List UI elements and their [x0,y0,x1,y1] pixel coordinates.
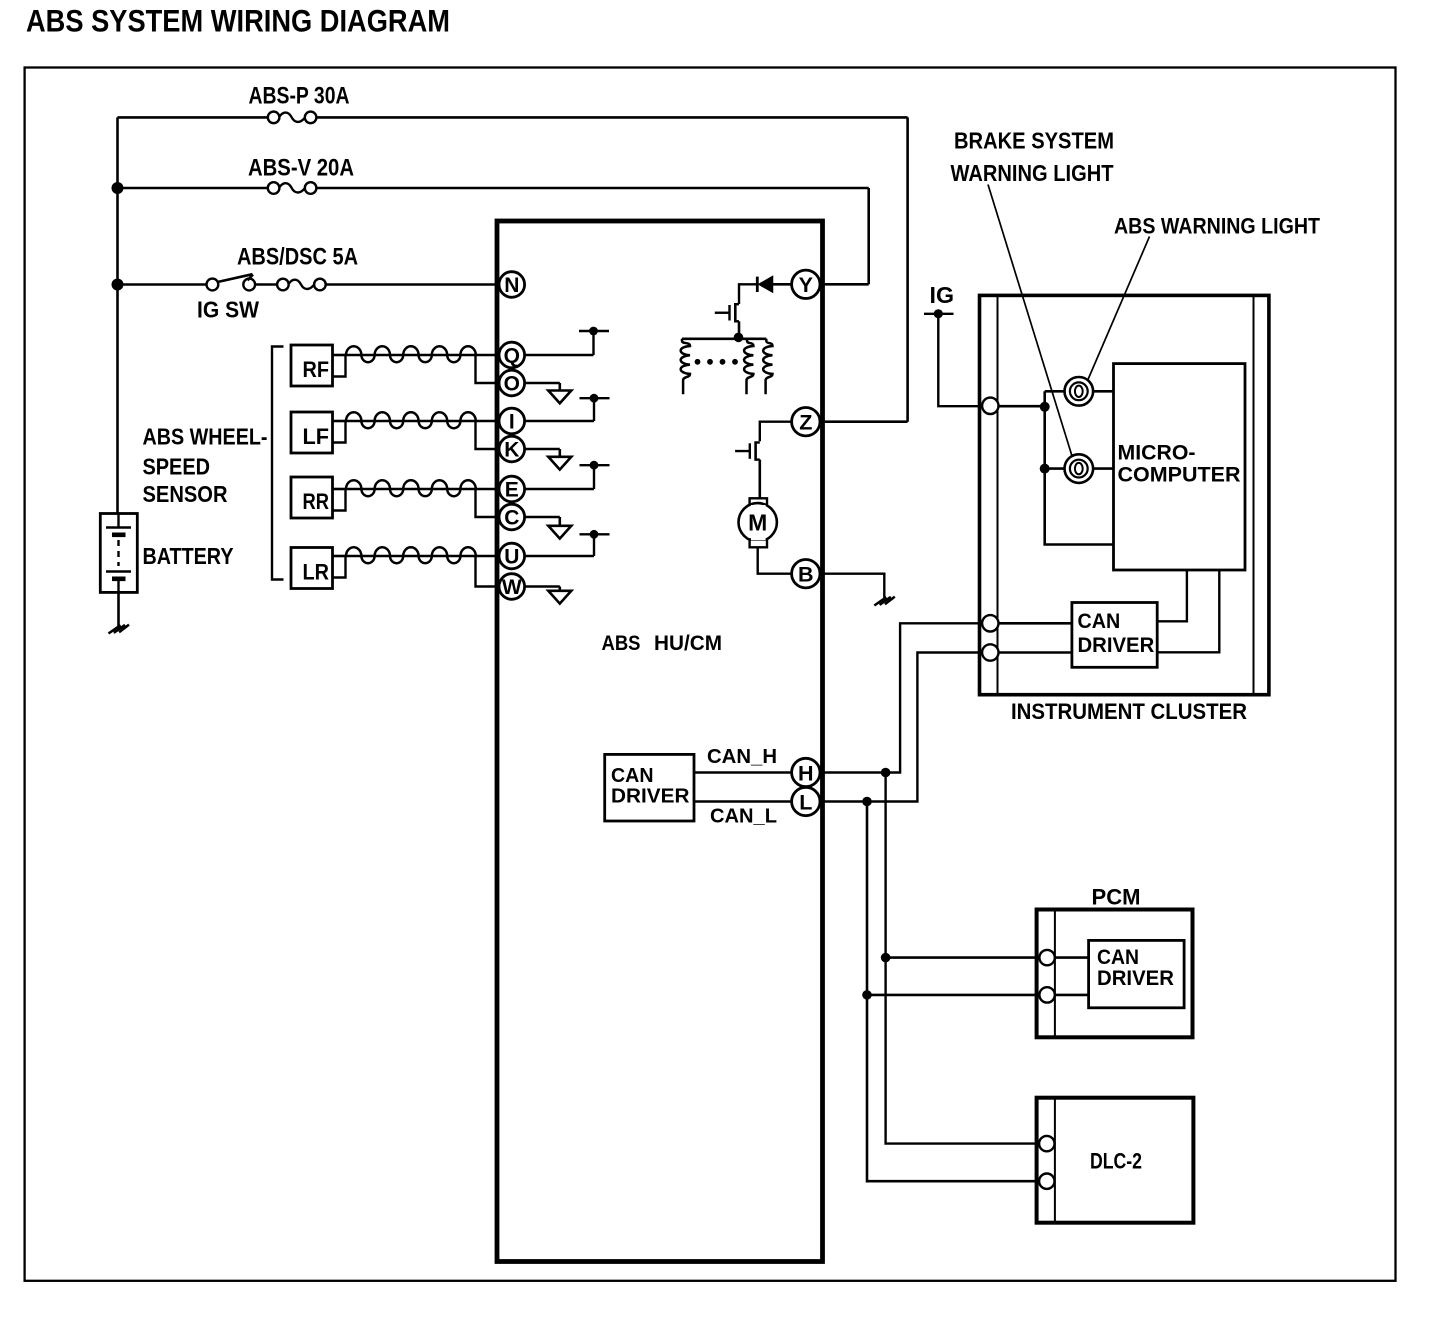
svg-text:M: M [748,510,767,536]
pin E [499,476,525,502]
wire fuse to pin N [326,283,499,286]
wire Q1 to solenoid rail [738,321,741,339]
wire LF return lead [476,421,500,449]
pin PCM CAN_L connector [1039,987,1054,1002]
lamp brake system warning light [1065,377,1094,406]
inductor solenoid valve 1 [681,339,690,394]
pin N [499,272,525,298]
node continuation dots [695,359,701,365]
wire LR return lead [476,556,500,587]
wire Q2 to motor [758,460,761,499]
svg-text:CAN_H: CAN_H [707,746,777,768]
battery [100,514,137,593]
svg-text:BATTERY: BATTERY [143,543,234,569]
wire RF leads [333,354,347,357]
svg-text:I: I [509,411,515,434]
svg-text:K: K [504,439,519,462]
wire sensor bracket [272,347,284,580]
svg-text:ABS-P 30A: ABS-P 30A [249,82,350,109]
svg-text:Y: Y [799,273,813,297]
wire microcomputer to CAN driver [1157,570,1187,621]
wire IG inside cluster [999,405,1045,408]
lamp ABS warning light [1065,454,1094,483]
wire ABS/DSC 5A feed [118,283,207,286]
wire CAN_L net to cluster [820,653,982,802]
svg-text:N: N [504,274,519,297]
pin Q [499,342,525,368]
wire CAN_L drop to PCM and DLC-2 [867,802,1039,1182]
sensor LR [291,548,333,589]
sensor RF [291,345,333,386]
wire RF return lead [476,355,500,383]
wire CAN_H [694,771,792,774]
wire battery to ground [117,592,120,626]
op-amp DLC-2 box [1037,1098,1194,1223]
wire switch to fuse [255,283,277,286]
fuse ABS-V 20A [268,182,280,194]
wire RR leads [333,488,347,491]
op-amp ABS HU/CM unit box [497,221,823,1262]
svg-text:U: U [504,546,519,569]
ground pin B [874,597,886,605]
fuse ABS/DSC 5A [277,279,289,291]
svg-text:COMPUTER: COMPUTER [1118,464,1241,487]
sensor LF [291,412,333,453]
svg-text:Z: Z [799,411,812,435]
pin B [792,560,820,588]
pin DLC-2 CAN_L connector [1039,1174,1054,1189]
svg-text:ABS SYSTEM WIRING DIAGRAM: ABS SYSTEM WIRING DIAGRAM [26,3,450,39]
svg-text:O: O [504,373,520,396]
wire CAN_H net to cluster [820,623,982,772]
svg-text:B: B [798,563,814,587]
svg-text:E: E [505,479,519,502]
pin cluster CAN_H connector [982,615,998,631]
svg-text:DRIVER: DRIVER [1097,967,1174,990]
wire ABS-V 20A feed [118,187,268,190]
pin I [499,408,525,434]
svg-text:ABS/DSC 5A: ABS/DSC 5A [237,244,358,271]
pin PCM CAN_H connector [1039,950,1054,965]
inductor coil LF [346,412,476,428]
wire diode to transistor Q1 [739,284,757,304]
inductor solenoid valve 2 [744,339,753,394]
wire CAN_H drop to PCM and DLC-2 [886,773,1040,1144]
svg-text:CAN: CAN [1078,610,1121,633]
svg-text:IG: IG [930,282,955,308]
op-amp INSTRUMENT CLUSTER box [980,295,1269,694]
transistor Q1 [735,303,739,305]
svg-text:ABS: ABS [602,632,641,655]
sensor RR [291,477,333,518]
pin O [499,370,525,396]
pin C [499,504,525,530]
svg-text:W: W [502,576,522,599]
op-amp MICRO-COMPUTER [1114,364,1246,570]
svg-text:H: H [798,761,814,785]
pin cluster CAN_L connector [982,644,998,660]
node junction CAN_L drop [862,797,872,807]
wire LF leads [333,420,347,423]
svg-text:L: L [799,790,812,814]
svg-text:C: C [504,507,519,530]
pin cluster IG connector [982,398,998,414]
wire ABS-P 30A feed [118,116,268,119]
svg-text:Q: Q [504,345,520,368]
wire battery rail vertical [116,117,119,513]
node junction CAN_H PCM tap [881,953,891,963]
ground pin K [525,448,560,451]
wire IG to cluster [938,314,982,406]
op-amp CAN DRIVER (PCM) [1089,940,1185,1007]
switch IG SW [207,279,219,291]
wire motor to pin B [758,547,792,573]
node junction pin U [525,555,594,558]
svg-text:BRAKE SYSTEM: BRAKE SYSTEM [954,128,1114,154]
node junction CAN_H drop [881,768,891,778]
pin U [499,543,525,569]
wire ABS-V to pin Y [867,188,870,284]
svg-text:INSTRUMENT CLUSTER: INSTRUMENT CLUSTER [1011,699,1247,724]
pin DLC-2 CAN_H connector [1039,1136,1054,1151]
wire pointer brake warning [988,185,1072,457]
pin H [792,758,820,786]
inductor coil LR [346,547,476,563]
wire ABS-P to pin Z [906,117,909,421]
svg-text:CAN: CAN [1097,946,1139,969]
svg-text:HU/CM: HU/CM [654,632,722,655]
node junction pin E [525,488,594,491]
svg-text:CAN_L: CAN_L [710,806,777,828]
node junction battery/ABS-DSC [112,279,124,291]
node junction battery/ABS-V [112,182,124,194]
pin K [499,436,525,462]
ground pin C [525,516,560,519]
pin L [792,787,820,815]
wire LR leads [333,555,347,558]
svg-text:RF: RF [303,357,330,382]
op-amp CAN DRIVER (cluster) [1072,603,1157,668]
node junction warning light 2 [1040,464,1050,474]
ground battery [109,625,121,633]
pin Z [792,408,820,436]
svg-text:DRIVER: DRIVER [1078,634,1155,657]
pin Y [792,270,820,298]
svg-text:SENSOR: SENSOR [143,481,228,507]
ground pin O [525,382,560,385]
transistor Q2 [756,441,760,443]
svg-text:SPEED: SPEED [143,454,211,480]
svg-text:ABS-V 20A: ABS-V 20A [248,155,354,182]
wire CAN_L [694,800,792,803]
svg-text:DLC-2: DLC-2 [1090,1149,1142,1174]
wire pointer abs warning [1088,237,1150,380]
fuse ABS-P 30A [268,112,280,124]
svg-text:ABS WHEEL-: ABS WHEEL- [143,424,268,450]
wire pin B to ground [820,574,884,598]
svg-text:LR: LR [303,560,330,585]
diode D1 [773,283,792,286]
node junction pin I [525,420,594,423]
wire RR return lead [476,489,500,517]
op-amp CAN DRIVER (ABS HU/CM) [605,754,694,821]
wire solenoid rail [682,337,766,340]
pin W [499,574,525,600]
inductor solenoid valve 3 [763,339,772,394]
svg-text:ABS WARNING LIGHT: ABS WARNING LIGHT [1114,214,1320,239]
inductor coil RR [346,480,476,496]
ground pin W [525,585,560,588]
node junction pin Q [525,354,594,357]
svg-text:DRIVER: DRIVER [611,785,690,808]
node junction CAN_L PCM tap [862,990,872,1000]
svg-text:LF: LF [303,424,330,449]
inductor coil RF [346,346,476,362]
motor M [750,498,767,506]
svg-text:WARNING LIGHT: WARNING LIGHT [951,160,1114,186]
svg-text:MICRO-: MICRO- [1118,442,1196,465]
node solenoid junction [734,333,744,343]
svg-text:PCM: PCM [1092,885,1141,910]
svg-text:IG SW: IG SW [197,297,259,323]
svg-text:RR: RR [303,489,330,514]
wire pin Z to transistor Q2 [760,422,792,442]
